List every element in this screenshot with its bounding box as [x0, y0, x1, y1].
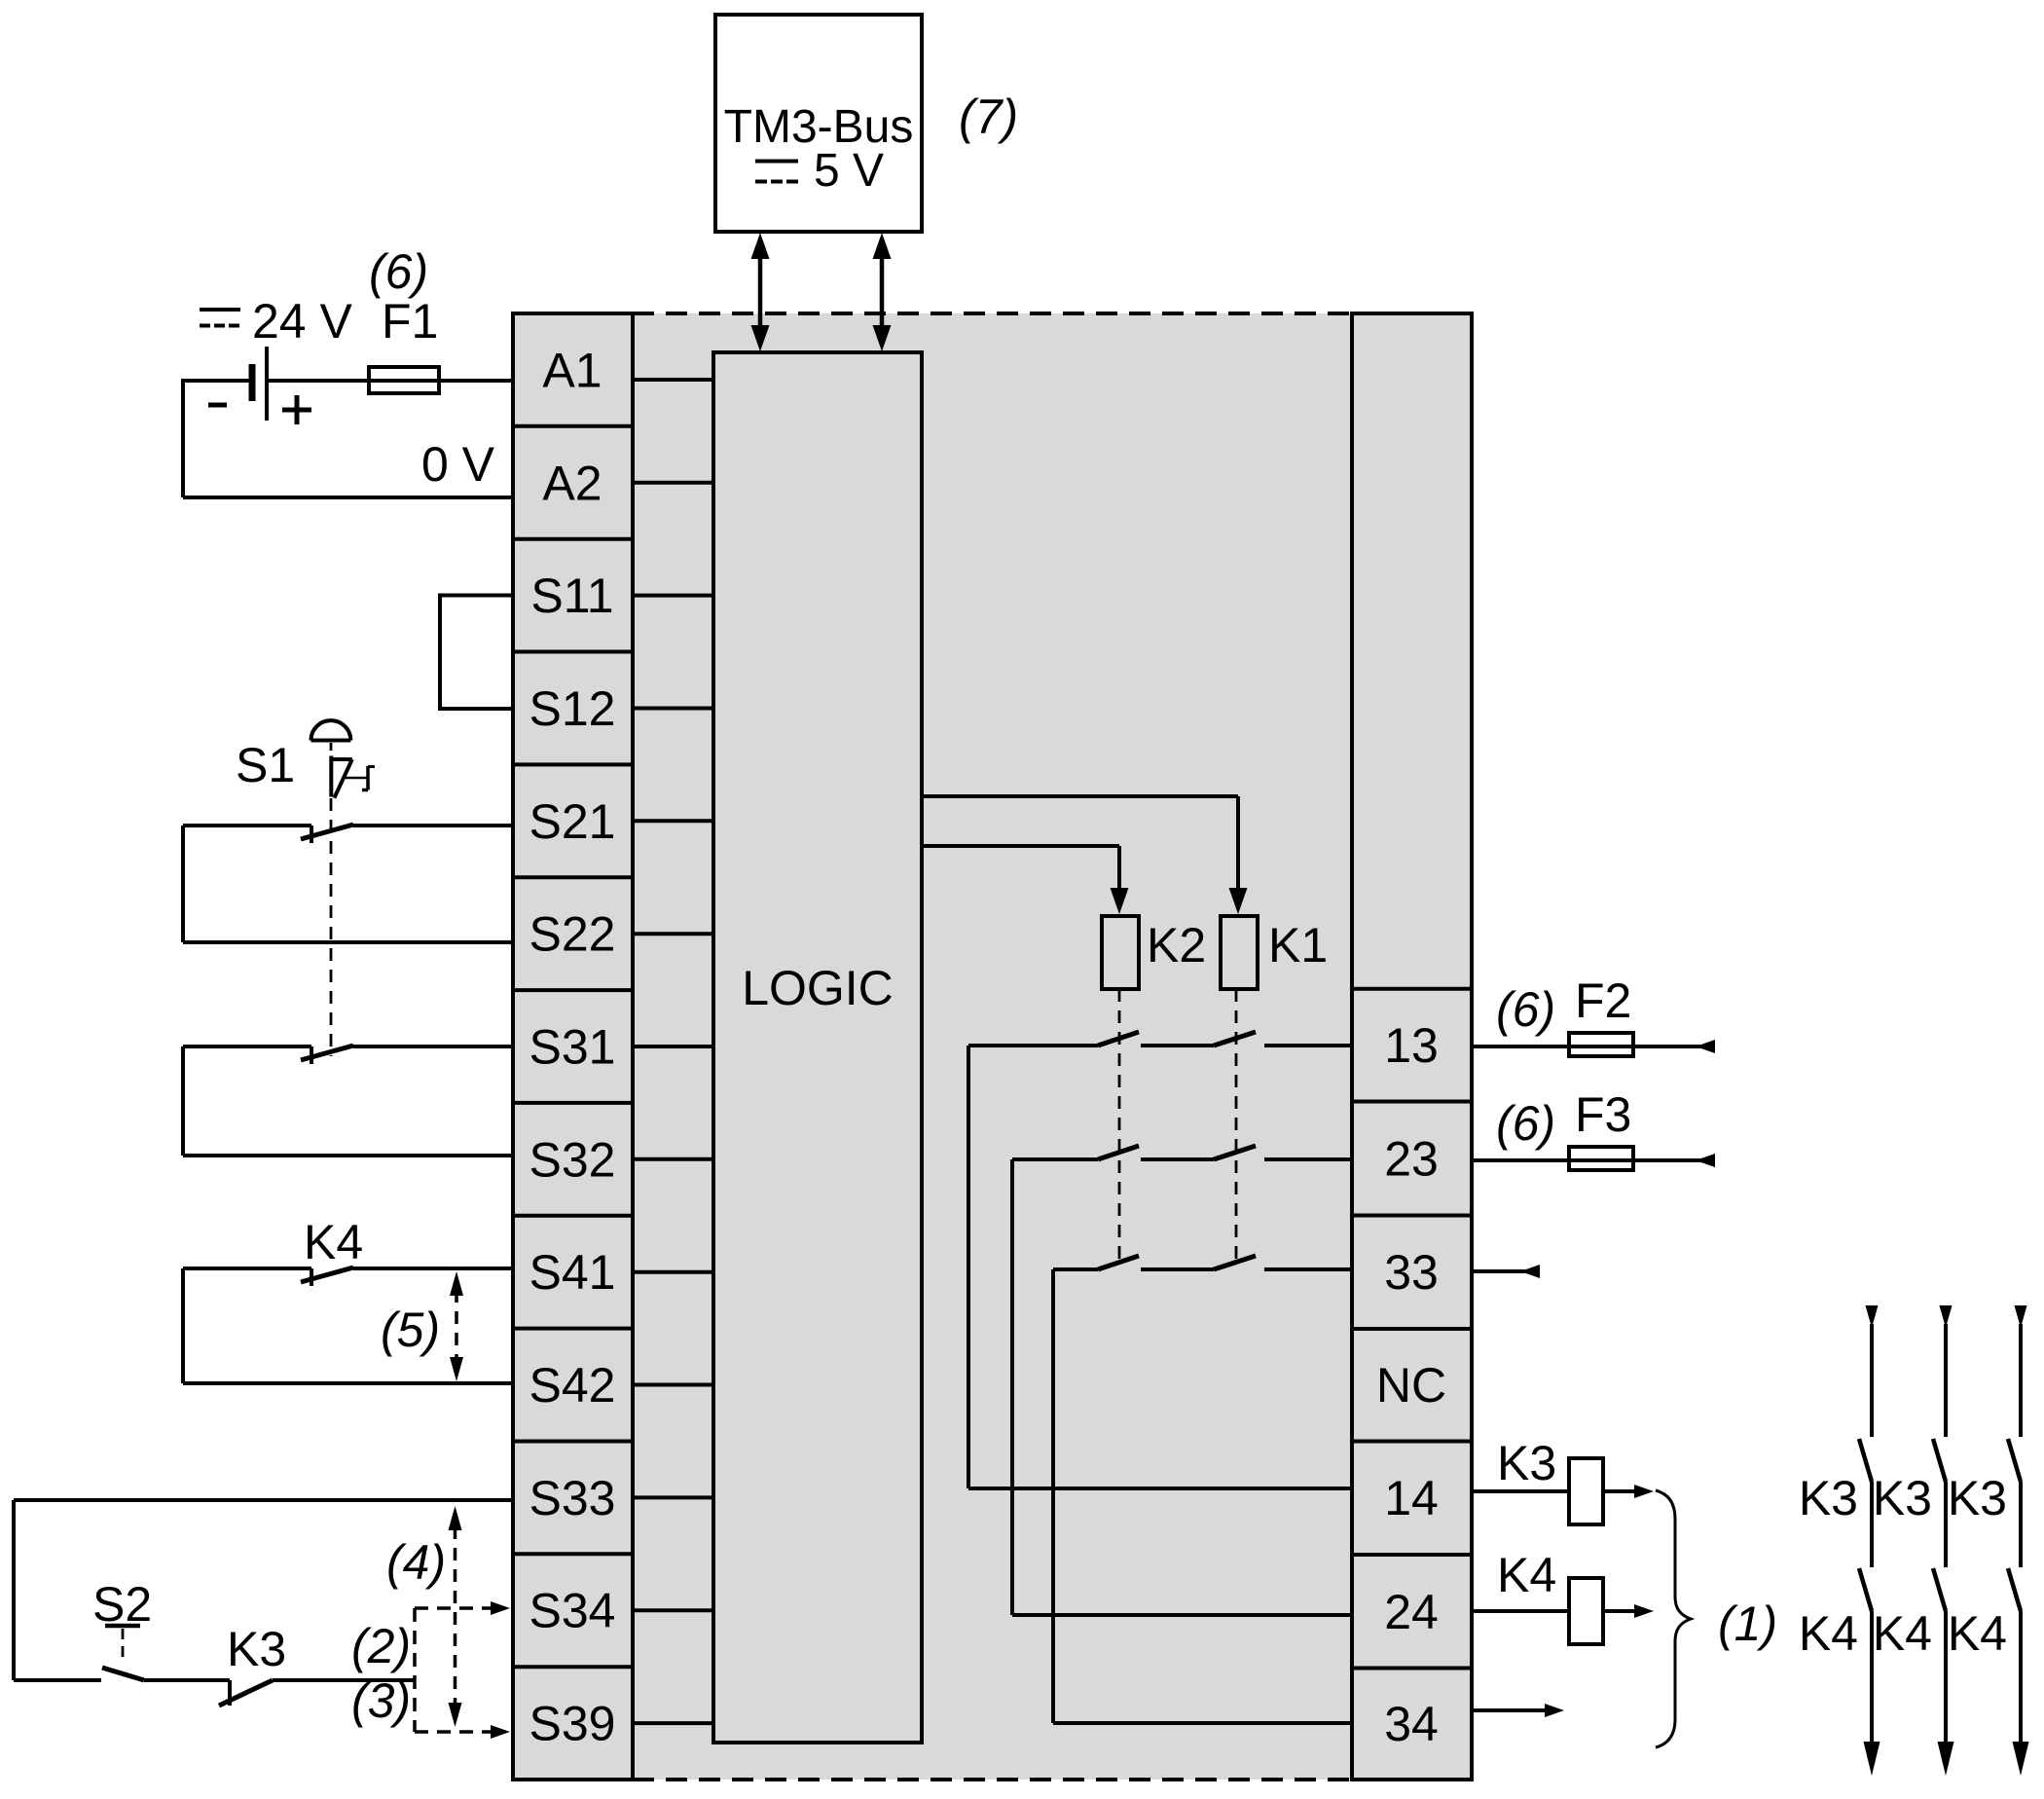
- load line 1 top arrow: [1866, 1305, 1879, 1328]
- wire contact chain 23 to terminal 23: [1264, 1157, 1352, 1161]
- wire battery negative to A1 row: [183, 379, 251, 383]
- S1 mushroom head: [311, 720, 351, 740]
- K4 power contact blade line 2: [1933, 1568, 1946, 1611]
- wire S33 to terminal: [14, 1498, 513, 1502]
- wire 0V to A2: [183, 496, 513, 499]
- right strip divider: [1352, 987, 1472, 991]
- load line 1 middle segment: [1870, 1482, 1874, 1567]
- svg-text:S2: S2: [92, 1577, 152, 1632]
- svg-text:23: 23: [1384, 1132, 1439, 1187]
- left strip divider below A2: [513, 537, 633, 541]
- left strip divider below S42: [513, 1440, 633, 1444]
- svg-text:S11: S11: [530, 569, 613, 623]
- load line 1 bottom segment: [1870, 1611, 1874, 1744]
- wire terminal 23 output: [1472, 1158, 1715, 1162]
- svg-text:S22: S22: [529, 907, 616, 962]
- svg-text:(6): (6): [1496, 982, 1555, 1037]
- TM3-Bus DC symbol solid bar: [755, 160, 798, 164]
- K3 power contact blade line 2: [1933, 1439, 1946, 1482]
- wire S2 to K3: [144, 1678, 230, 1682]
- left strip divider below S11: [513, 650, 633, 654]
- load line 2 bottom segment: [1944, 1611, 1948, 1744]
- wire terminal 14 to K3 coil: [1472, 1489, 1569, 1493]
- wire contact chain 13 to terminal 13: [1264, 1044, 1352, 1047]
- left strip divider below S33: [513, 1552, 633, 1556]
- wire stub S31 to LOGIC: [633, 1045, 713, 1048]
- svg-text:S34: S34: [529, 1584, 616, 1638]
- right strip divider: [1352, 1214, 1472, 1218]
- S2 plunger bar: [105, 1624, 140, 1629]
- wire stub S12 to LOGIC: [633, 707, 713, 711]
- wire stub A2 to LOGIC: [633, 481, 713, 485]
- wire terminal 24 to K4 coil: [1472, 1609, 1569, 1613]
- arrow into 23: [1696, 1154, 1715, 1167]
- left strip divider below S22: [513, 988, 633, 992]
- DC symbol solid bar 24V: [200, 308, 240, 312]
- right strip divider: [1352, 1327, 1472, 1331]
- right terminal strip: [1352, 313, 1472, 1780]
- wire chain 23 to terminal 24: [1010, 1159, 1014, 1615]
- svg-text:(4): (4): [386, 1535, 446, 1590]
- wire contact chain 23 middle segment: [1141, 1157, 1214, 1161]
- svg-text:K2: K2: [1147, 918, 1206, 973]
- wire stub S21 to LOGIC: [633, 819, 713, 823]
- svg-text:K3: K3: [227, 1622, 286, 1676]
- wire S33 loop vertical: [12, 1500, 16, 1680]
- dashed option wire to S39: [415, 1730, 493, 1734]
- svg-text:S42: S42: [529, 1358, 616, 1413]
- TM3-Bus DC symbol dashed bar: [755, 180, 798, 184]
- wire S41-S42 loop vertical: [181, 1268, 185, 1383]
- K3 power contact blade line 1: [1859, 1439, 1872, 1482]
- battery plus sign: [282, 408, 311, 413]
- wire S21 to terminal: [353, 824, 513, 827]
- S21 contact end stop: [310, 826, 313, 843]
- S2 contact blade: [102, 1668, 144, 1680]
- svg-text:(1): (1): [1718, 1597, 1777, 1651]
- wire stub S22 to LOGIC: [633, 932, 713, 936]
- S31 contact blade: [301, 1046, 353, 1060]
- wire stub S34 to LOGIC: [633, 1608, 713, 1612]
- K2 contact blade row 13: [1098, 1032, 1139, 1046]
- svg-text:S1: S1: [236, 738, 295, 792]
- wire contact chain 33 middle segment: [1141, 1267, 1214, 1271]
- svg-text:33: 33: [1384, 1245, 1439, 1300]
- load line 1 bottom arrow: [1864, 1742, 1880, 1776]
- svg-text:(7): (7): [959, 90, 1018, 144]
- svg-text:24 V: 24 V: [252, 294, 353, 349]
- left strip divider below S21: [513, 875, 633, 879]
- wire S41 left: [183, 1267, 311, 1270]
- wire stub S41 to LOGIC: [633, 1270, 713, 1274]
- svg-text:F3: F3: [1575, 1087, 1631, 1142]
- K2 contact blade row 33: [1098, 1256, 1139, 1269]
- wire terminal 33 output: [1472, 1269, 1540, 1273]
- wire LOGIC to K2 coil: [922, 844, 1119, 848]
- svg-text:S12: S12: [529, 681, 616, 736]
- wire jumper S11-S12: [440, 596, 513, 710]
- svg-text:K4: K4: [304, 1215, 363, 1269]
- note (5) dashed double arrow: [455, 1290, 458, 1363]
- svg-text:S21: S21: [529, 794, 616, 849]
- load line 2 middle segment: [1944, 1482, 1948, 1567]
- K2 linkage dashed line: [1118, 989, 1121, 1261]
- svg-text:(6): (6): [369, 244, 428, 299]
- wire chain 13 to terminal 14: [967, 1046, 970, 1488]
- svg-text:NC: NC: [1376, 1358, 1446, 1413]
- arrow out of K3 coil: [1603, 1489, 1637, 1493]
- K4 contact end stop: [310, 1268, 313, 1286]
- safety module IC body (grey area): [633, 313, 1352, 1780]
- svg-text:(6): (6): [1496, 1096, 1555, 1151]
- contactor coil K4: [1569, 1578, 1603, 1644]
- svg-text:34: 34: [1384, 1697, 1439, 1751]
- right strip divider: [1352, 1553, 1472, 1557]
- battery minus sign: [208, 403, 227, 408]
- right strip divider: [1352, 1667, 1472, 1670]
- S31 contact end stop: [310, 1046, 313, 1064]
- svg-text:K1: K1: [1268, 918, 1328, 973]
- K1 linkage dashed line: [1235, 989, 1238, 1261]
- load line 3 middle segment: [2019, 1482, 2023, 1567]
- wire S21 left: [183, 824, 311, 827]
- DC symbol dashed bar 24V: [200, 324, 240, 328]
- relay coil K2: [1102, 916, 1139, 989]
- wire S21-S22 loop vertical: [181, 826, 185, 942]
- arrow into 13: [1696, 1040, 1715, 1053]
- fuse F3: [1569, 1147, 1633, 1170]
- svg-text:A2: A2: [542, 456, 602, 510]
- wire 0V left vertical: [181, 379, 185, 497]
- dashed option wire to S34: [415, 1606, 493, 1610]
- left strip divider below S32: [513, 1214, 633, 1218]
- wire contact chain 13 left segment: [968, 1044, 1098, 1047]
- wire S31-S32 loop vertical: [181, 1046, 185, 1156]
- left strip divider below S34: [513, 1665, 633, 1669]
- arrow out of K4 coil: [1603, 1609, 1637, 1613]
- svg-text:K4: K4: [1799, 1606, 1858, 1661]
- wire K3 to S34 select point: [273, 1678, 415, 1682]
- wire S31 to terminal: [353, 1045, 513, 1048]
- note (4) dashed double arrow: [454, 1526, 457, 1707]
- svg-text:K4: K4: [1873, 1606, 1932, 1661]
- S2 plunger dashed stem: [122, 1629, 125, 1663]
- K3 contact end stop: [228, 1680, 232, 1706]
- TM3-Bus expansion box: [715, 15, 922, 232]
- battery 24V negative plate: [249, 364, 256, 401]
- svg-text:14: 14: [1384, 1471, 1439, 1525]
- wire stub S11 to LOGIC: [633, 594, 713, 598]
- K4 power contact blade line 1: [1859, 1568, 1872, 1611]
- wire stub S32 to LOGIC: [633, 1157, 713, 1161]
- svg-text:K4: K4: [1948, 1606, 2007, 1661]
- wire chain 33 to terminal 34: [1051, 1269, 1055, 1723]
- K1 contact blade row 23: [1214, 1146, 1256, 1159]
- left strip divider below A1: [513, 424, 633, 428]
- wire stub S33 to LOGIC: [633, 1495, 713, 1499]
- svg-text:S31: S31: [529, 1020, 616, 1075]
- wire S31 left: [183, 1045, 311, 1048]
- svg-text:K3: K3: [1948, 1471, 2007, 1525]
- wire S32 to terminal: [183, 1154, 513, 1157]
- battery 24V positive plate: [265, 347, 269, 421]
- svg-text:(2): (2): [351, 1619, 411, 1673]
- TM3 bus double arrow at x=906: [880, 255, 885, 327]
- svg-text:LOGIC: LOGIC: [742, 961, 894, 1015]
- contactor coil K3: [1569, 1458, 1603, 1524]
- svg-text:S33: S33: [529, 1471, 616, 1525]
- K4 power contact blade line 3: [2008, 1568, 2021, 1611]
- fuse F1: [369, 367, 439, 393]
- left terminal strip: [513, 313, 633, 1780]
- TM3 bus double arrow at x=781: [758, 255, 763, 327]
- svg-text:S39: S39: [529, 1697, 616, 1751]
- svg-text:S41: S41: [529, 1245, 616, 1300]
- svg-text:A1: A1: [542, 343, 602, 397]
- right strip divider: [1352, 1100, 1472, 1104]
- svg-text:13: 13: [1384, 1018, 1439, 1073]
- wire contact chain 33 left segment: [1053, 1267, 1098, 1271]
- wire contact chain 13 middle segment: [1141, 1044, 1214, 1047]
- svg-text:24: 24: [1384, 1585, 1439, 1639]
- load line 3 bottom segment: [2019, 1611, 2023, 1744]
- left strip divider below S12: [513, 762, 633, 766]
- K1 contact blade row 33: [1214, 1256, 1256, 1269]
- load line 2 bottom arrow: [1938, 1742, 1954, 1776]
- S21 contact blade: [301, 825, 353, 839]
- wire S42 to terminal: [183, 1381, 513, 1385]
- svg-text:F2: F2: [1575, 973, 1631, 1028]
- wire battery positive through F1 to A1: [267, 379, 513, 383]
- K4 contact blade: [301, 1267, 353, 1282]
- wire S41 to terminal: [353, 1267, 513, 1270]
- wire contact chain 33 to terminal 33: [1264, 1267, 1352, 1271]
- brace grouping outputs: [1656, 1490, 1691, 1747]
- svg-text:K3: K3: [1873, 1471, 1932, 1525]
- S1 actuator dashed stem: [330, 743, 333, 763]
- left strip divider below S31: [513, 1101, 633, 1105]
- relay coil K1: [1221, 916, 1258, 989]
- svg-text:F1: F1: [382, 294, 438, 349]
- svg-text:0 V: 0 V: [421, 437, 495, 492]
- wire stub A1 to LOGIC: [633, 378, 713, 382]
- fuse F2: [1569, 1033, 1633, 1056]
- K1 contact blade row 13: [1214, 1032, 1256, 1046]
- load line 3 bottom arrow: [2013, 1742, 2029, 1776]
- svg-text:K3: K3: [1799, 1471, 1858, 1525]
- K2 contact blade row 23: [1098, 1146, 1139, 1159]
- S1 latch hook: [344, 777, 367, 780]
- wire S22 to terminal: [183, 940, 513, 944]
- svg-text:(3): (3): [351, 1673, 411, 1728]
- S1 linkage dashed line: [330, 798, 333, 1056]
- right strip divider: [1352, 1440, 1472, 1444]
- svg-text:K4: K4: [1497, 1548, 1556, 1602]
- wire terminal 13 output: [1472, 1045, 1715, 1048]
- load line 2 top arrow: [1940, 1305, 1953, 1328]
- wire LOGIC to K1 coil: [922, 794, 1238, 798]
- arrow into 33: [1520, 1265, 1540, 1278]
- S1 positive-opening flag: [329, 756, 333, 797]
- wire S2 left: [14, 1678, 101, 1682]
- LOGIC block U1: [713, 352, 922, 1743]
- svg-text:5 V: 5 V: [814, 145, 884, 197]
- left strip divider below S41: [513, 1327, 633, 1331]
- wire terminal 34 output: [1472, 1708, 1548, 1712]
- wire stub S39 to LOGIC: [633, 1721, 713, 1725]
- wire contact chain 23 left segment: [1012, 1157, 1098, 1161]
- wire stub S42 to LOGIC: [633, 1383, 713, 1387]
- dashed option vertical: [413, 1608, 417, 1732]
- svg-text:(5): (5): [381, 1303, 440, 1357]
- module dashed border bottom: [633, 1778, 1352, 1781]
- K3 power contact blade line 3: [2008, 1439, 2021, 1482]
- svg-text:K3: K3: [1497, 1436, 1556, 1490]
- K3 contact blade: [219, 1680, 273, 1706]
- svg-text:S32: S32: [529, 1132, 616, 1187]
- module dashed border top: [633, 312, 1352, 315]
- load line 3 top arrow: [2015, 1305, 2027, 1328]
